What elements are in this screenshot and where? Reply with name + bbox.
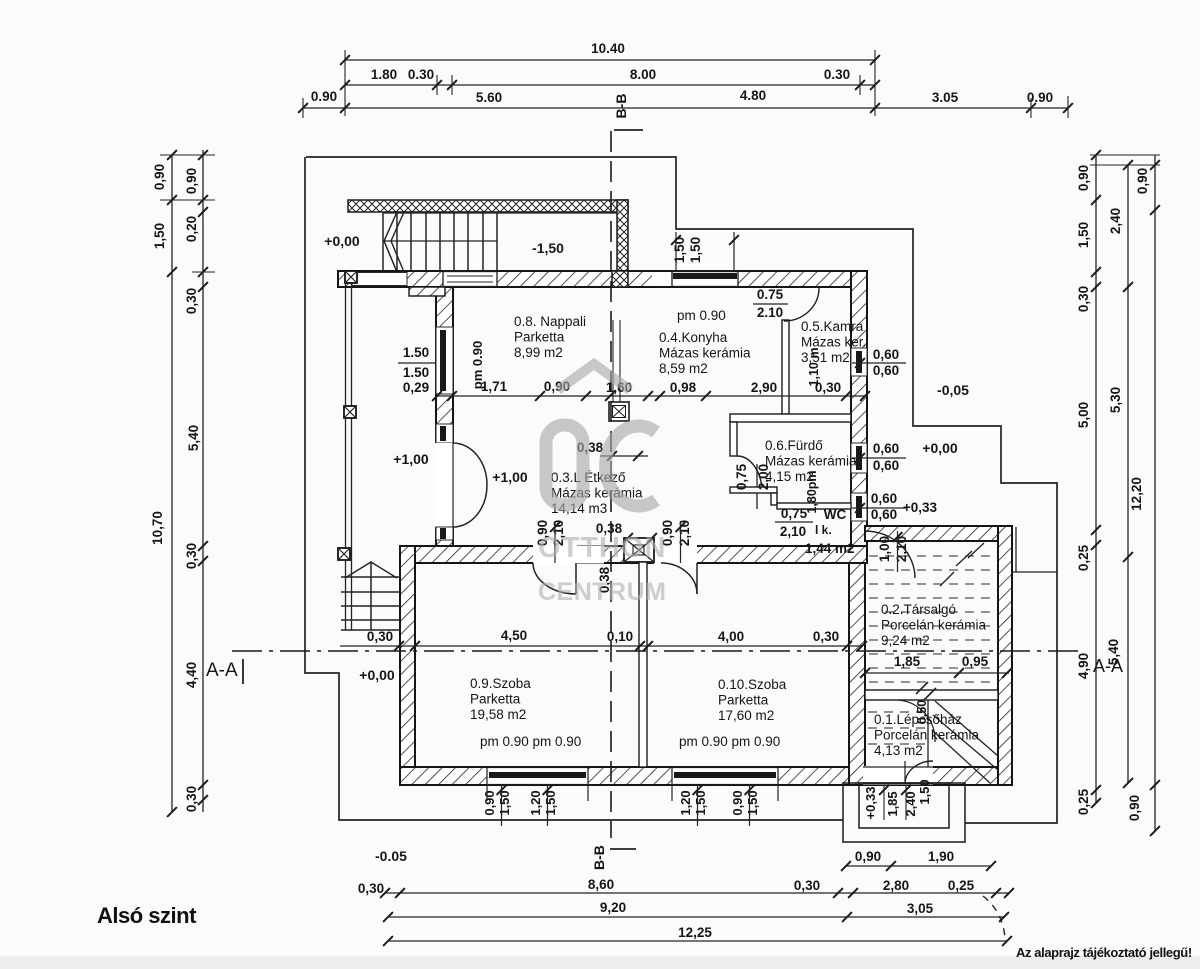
svg-text:2,40: 2,40 [1108,208,1123,234]
svg-text:pm 0.90: pm 0.90 [677,308,726,323]
svg-text:8,99 m2: 8,99 m2 [514,345,563,360]
svg-text:2,40: 2,40 [903,791,918,816]
svg-text:0,90: 0,90 [482,790,497,815]
svg-text:5,30: 5,30 [1108,387,1123,413]
svg-text:12,20: 12,20 [1129,477,1144,511]
svg-text:1,85: 1,85 [894,654,921,669]
svg-text:4,15 m2: 4,15 m2 [765,469,814,484]
svg-text:0,75: 0,75 [781,506,808,521]
svg-text:Mázas ker.: Mázas ker. [801,335,866,350]
svg-text:pm 0.90: pm 0.90 [470,341,485,389]
svg-text:5,40: 5,40 [186,425,201,451]
svg-text:1,50: 1,50 [745,790,760,815]
svg-text:0,90: 0,90 [855,849,881,864]
svg-text:0.1.Lépcsőház: 0.1.Lépcsőház [874,712,962,727]
svg-text:Az alaprajz tájékoztató jelleg: Az alaprajz tájékoztató jellegű! [1016,945,1192,960]
svg-text:Mázas kerámia: Mázas kerámia [765,454,857,469]
svg-text:5,40: 5,40 [1106,639,1121,665]
svg-text:+1,00: +1,00 [492,469,528,485]
svg-text:5,00: 5,00 [1076,402,1091,428]
svg-text:0,25: 0,25 [1076,788,1091,815]
svg-text:Parketta: Parketta [718,693,769,708]
svg-text:0,30: 0,30 [794,878,820,893]
svg-text:1,50: 1,50 [1076,222,1091,248]
svg-text:-0.05: -0.05 [375,848,407,864]
svg-text:1.50: 1.50 [403,345,429,360]
svg-text:Alsó szint: Alsó szint [97,903,197,928]
svg-text:Porcelán kerámia: Porcelán kerámia [874,728,980,743]
svg-text:B-B: B-B [591,845,607,870]
svg-text:0,95: 0,95 [962,654,989,669]
svg-text:0,30: 0,30 [184,786,199,812]
svg-text:0,29: 0,29 [403,380,429,395]
svg-text:0.5.Kamra: 0.5.Kamra [801,319,864,334]
svg-text:0.30: 0.30 [824,67,850,82]
svg-text:3,51 m2: 3,51 m2 [801,350,850,365]
svg-text:2.10: 2.10 [757,305,783,320]
svg-text:0,20: 0,20 [184,216,199,242]
svg-text:1,50: 1,50 [693,790,708,815]
svg-text:+0,00: +0,00 [324,233,360,249]
svg-text:0.30: 0.30 [408,67,434,82]
svg-text:9,24 m2: 9,24 m2 [881,633,930,648]
svg-text:0,60: 0,60 [873,441,899,456]
svg-text:0,90: 0,90 [1076,165,1091,191]
svg-text:10,70: 10,70 [150,511,165,545]
svg-text:0.10.Szoba: 0.10.Szoba [718,677,787,692]
svg-text:1,50: 1,50 [688,237,703,263]
svg-text:2,90: 2,90 [751,380,777,395]
svg-text:l k.: l k. [815,523,832,537]
svg-text:1,50: 1,50 [543,790,558,815]
svg-text:4,40: 4,40 [184,662,199,688]
svg-text:1,00: 1,00 [877,536,892,562]
svg-text:-0,05: -0,05 [937,382,969,398]
svg-text:-1,50: -1,50 [532,240,564,256]
svg-text:WC: WC [824,507,847,522]
svg-text:+0,00: +0,00 [359,667,395,683]
svg-text:Parketta: Parketta [470,692,521,707]
svg-text:0,98: 0,98 [670,380,697,395]
svg-text:2,10: 2,10 [780,524,806,539]
svg-text:OTTHON: OTTHON [538,532,666,564]
svg-text:10.40: 10.40 [591,41,625,56]
svg-text:pm 0.90 pm 0.90: pm 0.90 pm 0.90 [679,734,780,749]
svg-text:4.80: 4.80 [740,88,766,103]
svg-text:1,85: 1,85 [885,791,900,816]
svg-text:0,10: 0,10 [607,629,633,644]
svg-text:+0,33: +0,33 [903,500,938,515]
svg-text:0,25: 0,25 [948,878,975,893]
svg-text:0,60: 0,60 [873,347,899,362]
svg-text:4,13 m2: 4,13 m2 [874,743,923,758]
svg-text:0,25: 0,25 [1076,544,1091,571]
svg-text:Mázas kerámia: Mázas kerámia [659,346,751,361]
svg-text:0.75: 0.75 [757,287,784,302]
svg-text:2,80: 2,80 [883,878,909,893]
svg-text:0,30: 0,30 [367,629,393,644]
svg-text:8,59 m2: 8,59 m2 [659,361,708,376]
svg-text:0.2.Társalgó: 0.2.Társalgó [881,602,956,617]
svg-text:0,60: 0,60 [871,491,897,506]
svg-text:3.05: 3.05 [932,90,959,105]
svg-text:0.4.Konyha: 0.4.Konyha [659,330,728,345]
svg-text:9,20: 9,20 [600,900,626,915]
svg-text:1,50: 1,50 [152,223,167,249]
svg-text:1.50: 1.50 [403,365,429,380]
svg-text:0,60: 0,60 [873,363,899,378]
svg-text:0.8. Nappali: 0.8. Nappali [514,314,586,329]
svg-text:CENTRUM: CENTRUM [538,578,667,606]
svg-text:0,90: 0,90 [1135,168,1150,194]
svg-text:0,90: 0,90 [1127,795,1142,821]
svg-text:+0,33: +0,33 [863,787,878,820]
svg-text:pm 0.90 pm 0.90: pm 0.90 pm 0.90 [480,734,581,749]
svg-text:1.80: 1.80 [371,67,397,82]
svg-text:Parketta: Parketta [514,330,565,345]
svg-text:4,00: 4,00 [718,629,744,644]
svg-text:1,44 m2: 1,44 m2 [805,541,855,556]
svg-text:19,58 m2: 19,58 m2 [470,707,526,722]
svg-text:0,90: 0,90 [184,168,199,194]
svg-text:0,60: 0,60 [873,458,899,473]
svg-text:+0,00: +0,00 [922,440,958,456]
svg-text:12,25: 12,25 [678,925,712,940]
svg-text:1,50: 1,50 [917,779,932,804]
svg-text:1,90: 1,90 [928,849,954,864]
svg-text:B-B: B-B [613,94,629,119]
svg-text:0,90: 0,90 [152,164,167,190]
svg-text:0,30: 0,30 [184,543,199,569]
svg-text:0,75: 0,75 [734,463,749,490]
svg-text:Porcelán kerámia: Porcelán kerámia [881,618,987,633]
svg-text:17,60 m2: 17,60 m2 [718,708,774,723]
svg-text:1,20: 1,20 [528,790,543,815]
svg-text:A-A: A-A [206,660,238,681]
svg-text:1,20: 1,20 [678,790,693,815]
svg-text:2,10: 2,10 [894,536,909,562]
svg-text:4,90: 4,90 [1076,653,1091,679]
svg-text:0.90: 0.90 [311,89,337,104]
svg-text:0.6.Fürdő: 0.6.Fürdő [765,438,823,453]
svg-text:8.00: 8.00 [630,67,656,82]
svg-text:5.60: 5.60 [476,90,502,105]
svg-text:1,50: 1,50 [497,790,512,815]
svg-text:0,90: 0,90 [730,790,745,815]
svg-text:0,30: 0,30 [813,629,839,644]
svg-text:0,30: 0,30 [184,288,199,314]
svg-text:0,60: 0,60 [871,507,897,522]
svg-text:3,05: 3,05 [907,901,934,916]
svg-text:8,60: 8,60 [588,877,614,892]
svg-text:+1,00: +1,00 [393,451,429,467]
svg-text:0.9.Szoba: 0.9.Szoba [470,676,531,691]
svg-text:4,50: 4,50 [501,628,527,643]
svg-text:0,30: 0,30 [1076,286,1091,312]
svg-text:0,30: 0,30 [358,881,384,896]
